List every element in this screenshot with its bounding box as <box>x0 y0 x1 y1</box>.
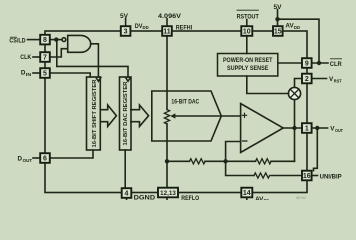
svg-text:5V: 5V <box>274 4 283 11</box>
svg-text:16-BIT SHIFT REGISTER: 16-BIT SHIFT REGISTER <box>92 79 98 148</box>
svg-text:9: 9 <box>305 61 309 68</box>
svg-text:REFLO: REFLO <box>181 195 199 200</box>
svg-text:UNI/BIP: UNI/BIP <box>320 173 342 180</box>
svg-text:11: 11 <box>163 29 171 36</box>
svg-text:8: 8 <box>43 37 47 44</box>
svg-text:CLR: CLR <box>330 61 342 68</box>
svg-text:4.096V: 4.096V <box>158 13 182 20</box>
svg-text:10: 10 <box>243 29 251 36</box>
svg-text:1650 TA01: 1650 TA01 <box>296 196 307 200</box>
svg-text:IN: IN <box>26 72 32 77</box>
svg-text:CLK: CLK <box>20 54 31 61</box>
svg-text:16-BIT DAC: 16-BIT DAC <box>171 99 199 106</box>
svg-text:SUPPLY SENSE: SUPPLY SENSE <box>227 66 269 72</box>
svg-text:OUT: OUT <box>335 128 343 133</box>
svg-text:DD: DD <box>294 25 301 30</box>
svg-text:3: 3 <box>124 29 128 36</box>
svg-text:16: 16 <box>303 173 311 180</box>
svg-text:15: 15 <box>274 29 282 36</box>
svg-text:16-BIT DAC REGISTER: 16-BIT DAC REGISTER <box>123 81 129 146</box>
svg-text:14: 14 <box>243 190 251 197</box>
svg-text:4: 4 <box>125 191 129 198</box>
svg-text:DGND: DGND <box>134 195 156 200</box>
svg-text:CS/LD: CS/LD <box>9 37 26 44</box>
svg-text:POWER-ON RESET: POWER-ON RESET <box>223 58 273 64</box>
svg-text:1: 1 <box>305 126 309 133</box>
svg-text:RSTOUT: RSTOUT <box>237 14 259 21</box>
svg-text:6: 6 <box>43 156 47 163</box>
svg-text:5V: 5V <box>120 13 129 20</box>
svg-text:2: 2 <box>305 76 309 83</box>
svg-text:SS: SS <box>264 198 270 200</box>
svg-text:7: 7 <box>43 55 47 62</box>
svg-text:OUT: OUT <box>23 158 33 163</box>
svg-text:12,13: 12,13 <box>160 191 176 197</box>
svg-text:RST: RST <box>334 78 342 83</box>
svg-text:REFHI: REFHI <box>176 25 193 32</box>
svg-text:DD: DD <box>143 25 150 30</box>
svg-text:5: 5 <box>43 71 47 78</box>
